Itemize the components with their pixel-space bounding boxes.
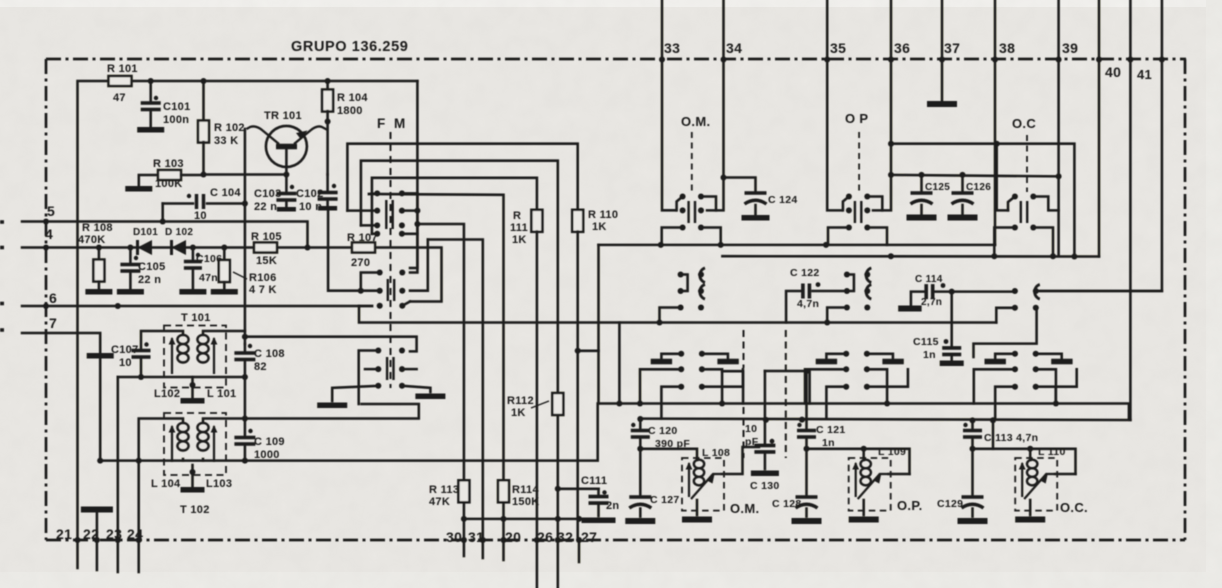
contacts OM switch upper rows bbox=[680, 194, 704, 231]
capacitor C109 bbox=[234, 419, 255, 461]
resistor R114 bbox=[498, 480, 509, 502]
label R110 bbox=[588, 209, 618, 221]
svg-text:26: 26 bbox=[537, 529, 553, 545]
label C109 value bbox=[254, 449, 280, 461]
svg-text:C 127: C 127 bbox=[650, 494, 680, 506]
hook sw2 row2 right riser bbox=[410, 240, 428, 291]
contacts OP lower switch rowB bbox=[843, 384, 870, 390]
contacts OP lower switch barrow bbox=[843, 351, 870, 373]
label C127 bbox=[650, 494, 680, 506]
OC mid arcs bbox=[1035, 285, 1040, 300]
inductor L108 box bbox=[682, 458, 724, 511]
wire C111 feed bbox=[558, 488, 599, 491]
svg-text:2n: 2n bbox=[606, 500, 619, 512]
wire terminal 23 column bbox=[117, 377, 120, 540]
label R107 value bbox=[351, 257, 370, 269]
label C103 value bbox=[254, 201, 277, 213]
label 35 bbox=[830, 40, 846, 56]
pointer R112 bbox=[531, 401, 549, 408]
label R114 bbox=[512, 484, 539, 496]
contacts OC upper rows bbox=[1012, 194, 1036, 231]
label R113 bbox=[429, 484, 459, 496]
transformer T101 box bbox=[164, 326, 226, 388]
label C128 bbox=[772, 498, 802, 510]
svg-text:5: 5 bbox=[47, 203, 55, 219]
contacts OM mid rows bbox=[678, 272, 704, 295]
wire OC mid right out bbox=[1036, 290, 1162, 293]
hook sw1 row2 left bbox=[347, 209, 377, 212]
hook sw1 row4 right bbox=[402, 233, 418, 236]
label O.C bbox=[1012, 116, 1036, 131]
label C115 value bbox=[923, 349, 936, 361]
node T102 top rail junctions bbox=[242, 416, 248, 422]
node bus2 junctions bbox=[637, 416, 996, 423]
svg-text:L 108: L 108 bbox=[702, 447, 730, 459]
inductor L109 box bbox=[849, 458, 891, 511]
svg-text:22: 22 bbox=[83, 526, 99, 542]
node bus1 left bbox=[616, 401, 643, 407]
wire terminal 40 bbox=[1098, 0, 1101, 257]
node terminal 33 chain bbox=[659, 57, 665, 63]
svg-text:35: 35 bbox=[830, 40, 846, 56]
resistor R110 bbox=[572, 210, 583, 540]
wire bus y256 bbox=[722, 255, 1099, 258]
wire OM extra drop bbox=[722, 371, 743, 403]
svg-text:D101: D101 bbox=[133, 227, 158, 238]
node terminal 6 junctions bbox=[43, 303, 121, 309]
svg-text:4 7 K: 4 7 K bbox=[249, 284, 277, 296]
hook OM lower switch rowB right bbox=[702, 369, 743, 386]
hook OC lower switch bar tr bbox=[1036, 354, 1062, 359]
wire C130-C121 joint bbox=[765, 371, 810, 404]
svg-text:R: R bbox=[513, 210, 521, 222]
wire bus y175 bbox=[891, 175, 1059, 177]
dashed linkage O.P. left bbox=[785, 330, 787, 458]
node C125 C126 taps bbox=[919, 172, 966, 178]
label 27 bbox=[581, 529, 597, 545]
svg-text:1K: 1K bbox=[511, 407, 526, 419]
label 24 bbox=[127, 526, 143, 542]
label terminal 5 bbox=[47, 203, 55, 219]
wire terminal 21 bbox=[76, 540, 79, 568]
svg-text:R 102: R 102 bbox=[214, 122, 245, 134]
wire terminal 33 drop bbox=[662, 60, 676, 210]
label 32 bbox=[557, 529, 573, 545]
node terminal 39 tap bbox=[1056, 173, 1062, 179]
svg-text:33 K: 33 K bbox=[214, 135, 238, 147]
svg-text:39: 39 bbox=[1062, 40, 1078, 56]
hook OP switch row3 right bbox=[867, 228, 887, 245]
ground T102 center bbox=[181, 465, 205, 490]
FM switch 2 bars bbox=[388, 279, 394, 301]
label R104 bbox=[337, 92, 368, 104]
node C124 tap bbox=[721, 175, 727, 181]
svg-text:22 n: 22 n bbox=[254, 201, 277, 213]
label L101 bbox=[207, 388, 236, 400]
wire TR101 emitter column bbox=[244, 129, 247, 344]
svg-text:30: 30 bbox=[446, 529, 462, 545]
wire C130 riser bbox=[764, 371, 767, 445]
node sw2 left junction bbox=[358, 288, 364, 294]
svg-text:C125: C125 bbox=[925, 182, 950, 193]
hook OM lower switch bar br bbox=[702, 369, 722, 403]
svg-text:O.M.: O.M. bbox=[681, 114, 710, 129]
wire OP node bbox=[807, 449, 910, 474]
svg-text:R 103: R 103 bbox=[153, 158, 184, 170]
label 22 bbox=[83, 526, 99, 542]
resistor R103 bbox=[125, 170, 203, 189]
svg-text:O.C.: O.C. bbox=[1060, 500, 1088, 515]
svg-text:R 104: R 104 bbox=[337, 92, 368, 104]
node OC lower switch bus1 taps bbox=[1053, 401, 1059, 407]
svg-text:20: 20 bbox=[505, 529, 521, 545]
label R103 bbox=[153, 158, 184, 170]
hook OP switch row1 left bbox=[843, 197, 849, 211]
capacitor C127 bbox=[625, 449, 655, 521]
label C111 bbox=[581, 475, 607, 487]
svg-text:R 105: R 105 bbox=[251, 231, 282, 243]
label R105 value bbox=[256, 255, 277, 267]
inductor L110 bbox=[1019, 460, 1055, 499]
node OM cap junction bbox=[637, 446, 643, 452]
hook OM switch row3 right bbox=[701, 228, 721, 245]
capacitor C120 bbox=[631, 420, 650, 449]
label C106 value bbox=[199, 272, 218, 284]
svg-text:pF: pF bbox=[745, 436, 759, 448]
label R106 value bbox=[249, 284, 277, 296]
inductor L110 box bbox=[1015, 458, 1057, 511]
label R105 bbox=[251, 231, 282, 243]
hook OP lower switch bar br bbox=[867, 369, 887, 403]
svg-text:R 113: R 113 bbox=[429, 484, 459, 496]
hook OC row3 right bbox=[974, 308, 1037, 357]
node collector junction bbox=[325, 119, 331, 125]
inductor L109 bbox=[852, 460, 888, 499]
svg-text:37: 37 bbox=[944, 40, 960, 56]
svg-text:390 pF: 390 pF bbox=[655, 438, 690, 450]
wire rail R101 to R104 node bbox=[131, 80, 417, 83]
node terminal 40 chain bbox=[1096, 57, 1102, 63]
svg-text:C129: C129 bbox=[937, 498, 963, 510]
label R103 value bbox=[155, 178, 183, 190]
wire to terminal 31 bbox=[428, 240, 483, 541]
label 26 bbox=[537, 529, 553, 545]
svg-text:C 109: C 109 bbox=[254, 436, 285, 448]
node OM lower switch bus1 taps bbox=[719, 401, 725, 407]
svg-text:L102: L102 bbox=[154, 388, 180, 400]
capacitor C102 bbox=[318, 175, 338, 209]
ground FM switch 3 left bbox=[317, 402, 347, 408]
resistor R108 bbox=[85, 248, 112, 292]
wire terminal 38 bbox=[994, 0, 997, 60]
hook OC lower switch bar tl bbox=[995, 354, 1015, 359]
svg-text:T 102: T 102 bbox=[180, 504, 210, 516]
svg-text:L103: L103 bbox=[206, 478, 232, 490]
label C115 bbox=[913, 336, 939, 348]
node OC row3 bus taps bbox=[991, 253, 1056, 259]
label R111b bbox=[510, 222, 528, 234]
ground OC coil bbox=[1015, 517, 1045, 523]
node terminal 41 chain bbox=[1127, 57, 1133, 63]
label 31 bbox=[468, 529, 484, 545]
wire terminal 36 drop bbox=[873, 60, 891, 210]
OM switch upper bars bbox=[689, 201, 695, 223]
label R107 bbox=[347, 232, 378, 244]
hook OM lower switch bar bl bbox=[640, 369, 681, 403]
svg-text:O.P.: O.P. bbox=[897, 498, 923, 513]
module boundary chain line (dash-dot frame) bbox=[46, 59, 1186, 540]
label C109 bbox=[254, 436, 285, 448]
FM switch linkage dashed bbox=[390, 132, 392, 388]
wire third right line bbox=[1037, 0, 1162, 291]
hook OP lower switch bar tl bbox=[826, 354, 846, 359]
wire terminal 33 bbox=[661, 0, 664, 60]
OM lower switch bar left bbox=[651, 359, 672, 365]
svg-text:C 124: C 124 bbox=[768, 194, 798, 206]
svg-text:40: 40 bbox=[1105, 64, 1121, 80]
label C105 value bbox=[138, 274, 161, 286]
svg-text:10: 10 bbox=[745, 423, 757, 435]
wire top rail bbox=[78, 81, 110, 540]
wire terminal 39 drop bbox=[1057, 60, 1060, 256]
node emitter branch bbox=[242, 334, 248, 340]
label C130 pF bbox=[745, 436, 759, 448]
label C121 bbox=[816, 424, 846, 436]
OP switch upper bars bbox=[855, 201, 861, 223]
capacitor C122 bbox=[786, 282, 847, 322]
hook OC row3 right bbox=[1033, 228, 1053, 257]
label C102 value bbox=[299, 201, 322, 213]
svg-text:L 104: L 104 bbox=[151, 478, 181, 490]
resistor R106 bbox=[211, 248, 238, 292]
svg-text:C 120: C 120 bbox=[648, 425, 678, 437]
label L104 bbox=[151, 478, 181, 490]
hook OC row1 right bbox=[1033, 197, 1058, 211]
label 37 bbox=[944, 40, 960, 56]
resistor R101 bbox=[109, 76, 132, 86]
title GRUPO 136.259 bbox=[291, 39, 408, 55]
hook OM lower switch bar tl bbox=[661, 354, 681, 359]
wire terminal 24 stub bbox=[137, 540, 140, 572]
hook OP switch row3 left bbox=[828, 228, 849, 245]
resistor R104 bbox=[322, 81, 333, 175]
contacts OC mid rows bbox=[1012, 288, 1039, 311]
node terminal 39 chain bbox=[1056, 57, 1062, 63]
svg-text:C126: C126 bbox=[966, 182, 991, 193]
hook sw2 left bracket bbox=[361, 273, 380, 291]
ground OP coil bbox=[849, 517, 879, 523]
svg-text:24: 24 bbox=[127, 526, 143, 542]
node C104-emitter junction bbox=[242, 201, 248, 207]
wire OM to coil bbox=[640, 449, 697, 460]
label 33 bbox=[664, 40, 680, 56]
label L102 bbox=[154, 388, 180, 400]
node OM row3 bus tap bbox=[657, 320, 663, 326]
label TR101 bbox=[264, 110, 302, 122]
svg-text:R 101: R 101 bbox=[107, 63, 138, 75]
label 38 bbox=[999, 40, 1015, 56]
label C107 bbox=[111, 344, 139, 356]
wire terminal 22 bbox=[96, 512, 99, 570]
FM switch 1 bars bbox=[386, 200, 392, 229]
node terminal 36 chain bbox=[888, 57, 894, 63]
label 41 bbox=[1137, 67, 1152, 82]
hook OP lower switch bar tr bbox=[867, 354, 893, 359]
svg-text:C103: C103 bbox=[254, 188, 282, 200]
OM switch selector dashed bbox=[691, 132, 693, 192]
hook sw2 row3 right bbox=[402, 302, 410, 306]
label terminal 6 bbox=[49, 290, 57, 306]
diode D102 bbox=[172, 240, 187, 255]
wire T102 bottom rail bbox=[100, 404, 598, 461]
stub 30 bbox=[463, 540, 466, 556]
diode D101 bbox=[138, 240, 153, 255]
wire T102 bottom neck right bbox=[202, 459, 205, 461]
wire terminal 7 bbox=[22, 333, 100, 461]
label R111 value bbox=[512, 234, 527, 246]
wire C121 riser bbox=[805, 371, 808, 420]
label R102 value bbox=[214, 135, 238, 147]
label C122 bbox=[790, 267, 820, 279]
wire rail down to FM switch bbox=[410, 81, 417, 268]
hook OM lower switch bar tr bbox=[702, 354, 728, 359]
label R102 bbox=[214, 122, 245, 134]
hook sw1 row4 left bbox=[372, 233, 377, 236]
ground terminal 37 bbox=[927, 60, 957, 104]
ground terminal 22 bbox=[81, 507, 113, 513]
label O.P. osc bbox=[897, 498, 923, 513]
wire terminal 34 bbox=[722, 0, 725, 60]
svg-text:R106: R106 bbox=[249, 272, 277, 284]
label C130 bbox=[750, 480, 780, 492]
wire T102 secondary top rail to FM bbox=[203, 404, 419, 422]
wire OP coil ground bbox=[862, 500, 865, 515]
wire bus2 drop to OC node bbox=[992, 420, 995, 449]
label R110 value bbox=[592, 221, 607, 233]
node third line chain bbox=[1159, 57, 1165, 63]
contacts OM lower switch barrow bbox=[678, 351, 705, 373]
label R101 value bbox=[113, 92, 126, 104]
label C108 value bbox=[254, 361, 267, 373]
resistor R107 bbox=[352, 243, 375, 253]
label O.P bbox=[845, 111, 868, 126]
svg-text:C102: C102 bbox=[296, 188, 324, 200]
node bus y244 junctions bbox=[658, 242, 829, 248]
node terminal 38 chain bbox=[992, 57, 998, 63]
svg-text:C115: C115 bbox=[913, 336, 939, 348]
svg-text:111: 111 bbox=[510, 222, 528, 234]
label 36 bbox=[894, 40, 910, 56]
svg-text:22 n: 22 n bbox=[138, 274, 161, 286]
wire C111 column upper bbox=[597, 245, 600, 323]
svg-text:L 101: L 101 bbox=[207, 388, 236, 400]
svg-text:1n: 1n bbox=[822, 437, 835, 449]
svg-text:C105: C105 bbox=[138, 261, 166, 273]
label T102 bbox=[180, 504, 210, 516]
hook sw1 row2 right bbox=[402, 209, 418, 212]
capacitor C105 bbox=[117, 248, 144, 292]
node terminal 35 chain bbox=[824, 57, 830, 63]
wire terminal 39 bbox=[1057, 0, 1060, 60]
stub 27 bbox=[578, 540, 581, 562]
node base rail junctions bbox=[201, 172, 290, 178]
label 40 bbox=[1105, 64, 1121, 80]
svg-text:C107: C107 bbox=[111, 344, 139, 356]
svg-text:10: 10 bbox=[119, 357, 132, 369]
label C104 bbox=[210, 187, 241, 199]
node terminal 36 taps bbox=[888, 141, 894, 178]
svg-text:36: 36 bbox=[894, 40, 910, 56]
label C101 bbox=[163, 101, 191, 113]
label C104 value bbox=[194, 210, 207, 222]
node rail-sw junctions bbox=[414, 208, 420, 227]
capacitor C125 bbox=[907, 175, 937, 218]
wire OC feed bbox=[997, 144, 1008, 211]
wire rail to switch2 bbox=[410, 193, 417, 272]
OC lower switch bar right bbox=[1051, 359, 1072, 365]
label 30 bbox=[446, 529, 462, 545]
svg-text:T 101: T 101 bbox=[181, 312, 211, 324]
label R112 value bbox=[511, 407, 526, 419]
capacitor C128 bbox=[792, 449, 822, 521]
svg-text:2,7n: 2,7n bbox=[921, 297, 942, 308]
label R108 value bbox=[78, 234, 106, 246]
transistor TR101 bbox=[247, 126, 328, 175]
contacts OM lower switch rowB bbox=[678, 384, 705, 390]
page edge tick wire5 bbox=[0, 222, 4, 330]
svg-text:R 110: R 110 bbox=[588, 209, 618, 221]
stub 26 bbox=[536, 540, 539, 588]
resistor R113 bbox=[458, 480, 469, 502]
ground terminal 7 bbox=[87, 353, 114, 359]
wire T101 left top bbox=[141, 331, 183, 350]
wire emitter branch to switch3 bbox=[245, 337, 417, 352]
pointer R106 bbox=[233, 272, 247, 279]
node OP cap junction bbox=[804, 446, 810, 452]
svg-text:C 104: C 104 bbox=[210, 187, 241, 199]
contacts OP mid rows bbox=[844, 272, 870, 295]
ground FM switch 3 right bbox=[415, 393, 445, 399]
label R111 bbox=[513, 210, 521, 222]
OM lower switch bar right bbox=[717, 359, 738, 365]
hook OP lower switch bar bl bbox=[805, 369, 846, 403]
label C125 bbox=[925, 182, 950, 193]
svg-text:32: 32 bbox=[557, 529, 573, 545]
wire bus D bbox=[369, 194, 504, 540]
node OC cap junction bbox=[970, 446, 976, 452]
svg-text:C 122: C 122 bbox=[790, 267, 820, 279]
wire terminal 36 bbox=[890, 0, 893, 60]
hook OP lower switch rowB left bbox=[826, 387, 846, 419]
hook OM switch row1 left bbox=[677, 197, 683, 211]
wire T101 right top bbox=[203, 331, 245, 334]
label T101 bbox=[181, 312, 211, 324]
svg-text:TR 101: TR 101 bbox=[264, 110, 302, 122]
contacts FM switch 3 bbox=[375, 348, 405, 389]
hook sw3 row2 left bbox=[365, 368, 378, 371]
svg-text:C 108: C 108 bbox=[254, 348, 285, 360]
label O.C. osc bbox=[1060, 500, 1088, 515]
svg-text:21: 21 bbox=[56, 526, 72, 542]
capacitor C124 bbox=[724, 178, 770, 218]
hook OC lower switch bar br bbox=[1036, 369, 1056, 403]
inductor L103 bbox=[197, 423, 217, 462]
wire bus B bbox=[361, 161, 558, 540]
wire bus1 bbox=[599, 404, 1129, 419]
svg-text:L 109: L 109 bbox=[878, 446, 906, 458]
wire base rail bbox=[204, 173, 287, 176]
OP mid bracket bbox=[847, 275, 854, 292]
